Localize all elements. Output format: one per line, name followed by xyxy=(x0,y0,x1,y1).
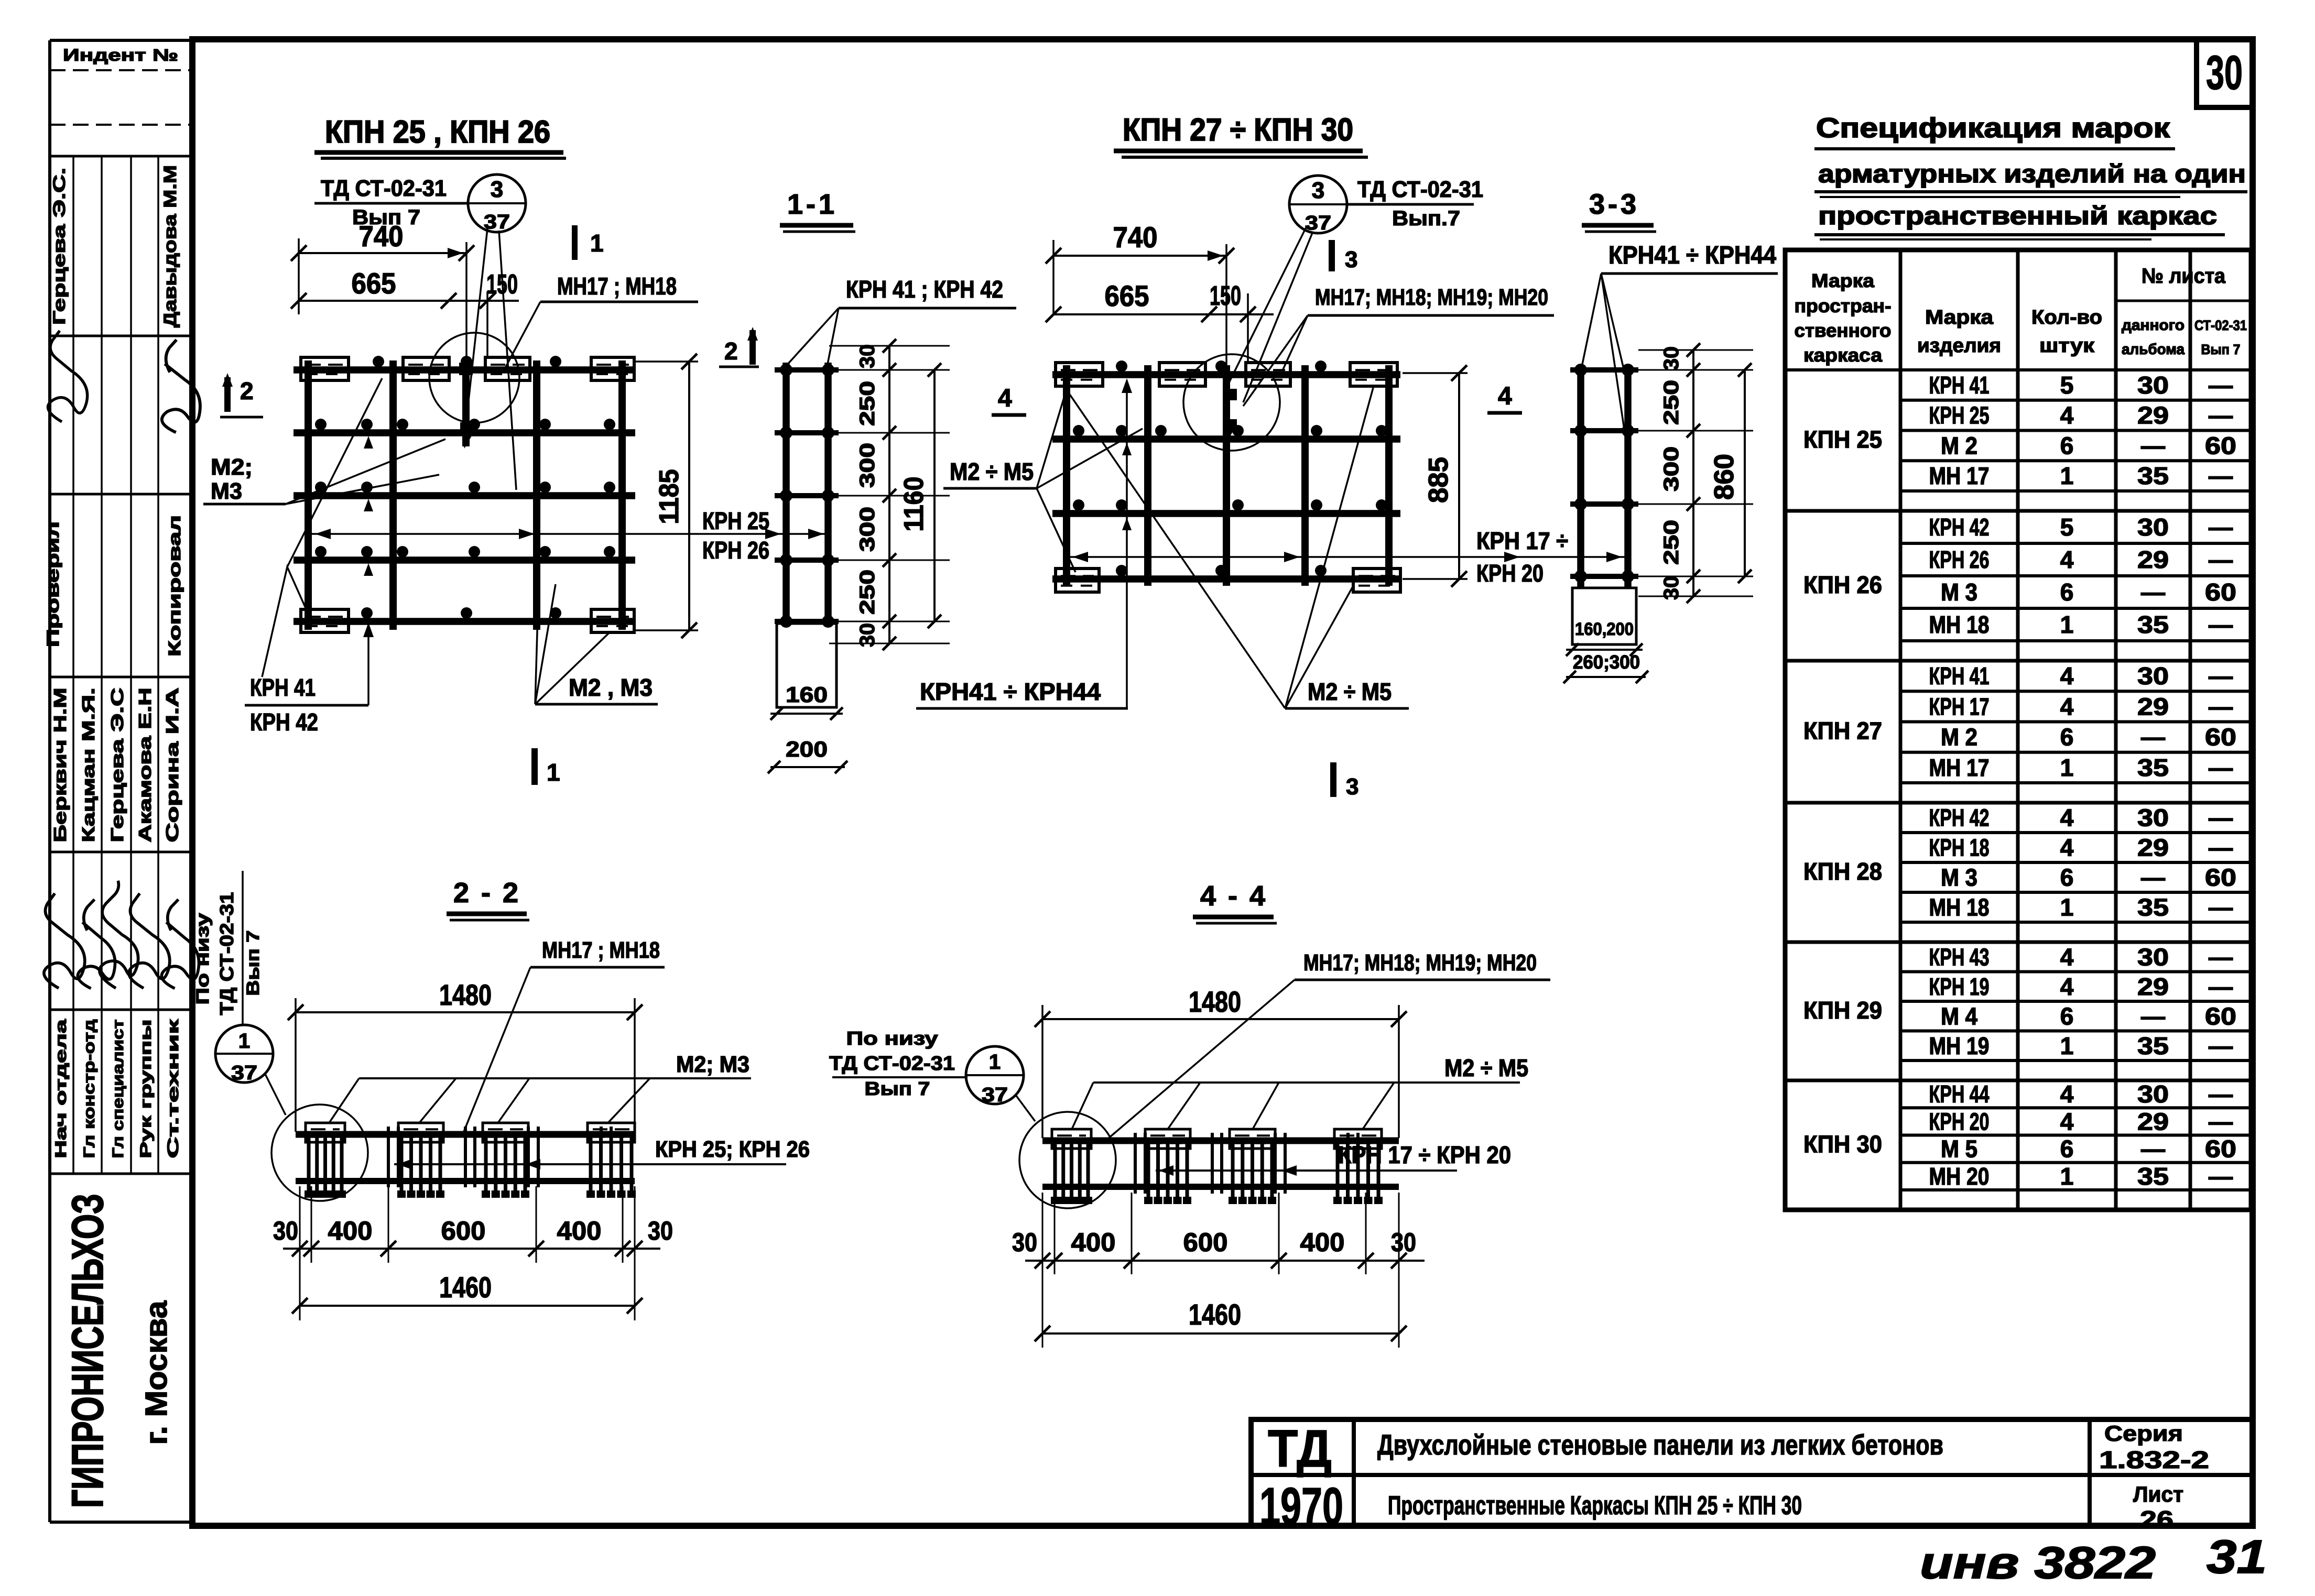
svg-text:М 3: М 3 xyxy=(1941,578,1977,606)
svg-text:инв 3822: инв 3822 xyxy=(1920,1538,2156,1588)
svg-text:5: 5 xyxy=(2060,513,2074,541)
svg-text:30: 30 xyxy=(1391,1228,1416,1257)
svg-text:Ст.техник: Ст.техник xyxy=(165,1019,182,1158)
svg-text:60: 60 xyxy=(2205,578,2236,606)
svg-text:КРН 42: КРН 42 xyxy=(1929,513,1990,541)
svg-text:Сорина И.А: Сорина И.А xyxy=(162,688,182,843)
svg-text:штук: штук xyxy=(2039,335,2095,357)
svg-text:—: — xyxy=(2209,371,2233,399)
svg-text:30: 30 xyxy=(2137,1080,2169,1108)
svg-text:простран-: простран- xyxy=(1795,295,1892,316)
svg-text:—: — xyxy=(2209,402,2233,429)
svg-text:Вып 7: Вып 7 xyxy=(2201,342,2241,357)
svg-text:МН 20: МН 20 xyxy=(1929,1163,1990,1190)
svg-text:6: 6 xyxy=(2060,864,2074,891)
svg-text:400: 400 xyxy=(328,1216,373,1245)
svg-text:КРН 41 ; КРН 42: КРН 41 ; КРН 42 xyxy=(846,276,1003,303)
svg-text:6: 6 xyxy=(2060,724,2074,751)
svg-text:Вып.7: Вып.7 xyxy=(1392,207,1460,230)
svg-text:29: 29 xyxy=(2137,973,2169,1000)
svg-text:МН 18: МН 18 xyxy=(1929,894,1990,921)
svg-text:Гл специалист: Гл специалист xyxy=(110,1020,127,1158)
svg-text:26: 26 xyxy=(2140,1506,2173,1533)
svg-text:КПН 25: КПН 25 xyxy=(1803,426,1882,453)
svg-text:29: 29 xyxy=(2137,1108,2169,1135)
svg-text:4: 4 xyxy=(2060,693,2074,720)
svg-text:4: 4 xyxy=(2060,973,2074,1000)
svg-text:30: 30 xyxy=(856,623,879,647)
svg-text:ТД СТ-02-31: ТД СТ-02-31 xyxy=(1357,177,1483,202)
svg-text:4: 4 xyxy=(2060,1080,2074,1108)
svg-text:КРН 25: КРН 25 xyxy=(1929,402,1990,429)
svg-text:М2 ÷ М5: М2 ÷ М5 xyxy=(1444,1054,1528,1081)
svg-text:4: 4 xyxy=(2060,546,2074,573)
svg-text:М2 ÷ М5: М2 ÷ М5 xyxy=(950,458,1034,485)
svg-text:КРН 19: КРН 19 xyxy=(1929,973,1990,1000)
svg-text:3: 3 xyxy=(491,177,503,202)
svg-text:60: 60 xyxy=(2205,1002,2236,1030)
svg-text:КПН 30: КПН 30 xyxy=(1803,1131,1882,1158)
svg-text:30: 30 xyxy=(2206,46,2243,100)
svg-text:КРН 25: КРН 25 xyxy=(702,507,769,534)
svg-text:Вып 7: Вып 7 xyxy=(352,206,420,229)
svg-text:МН17; МН18; МН19; МН20: МН17; МН18; МН19; МН20 xyxy=(1315,285,1548,310)
svg-text:Серия: Серия xyxy=(2104,1421,2183,1446)
svg-text:35: 35 xyxy=(2137,754,2169,781)
svg-text:4: 4 xyxy=(2060,804,2074,832)
svg-text:КРН 41: КРН 41 xyxy=(1929,371,1990,399)
svg-text:—: — xyxy=(2209,943,2233,970)
svg-text:Акамова Е.Н: Акамова Е.Н xyxy=(135,688,155,843)
svg-text:30: 30 xyxy=(1660,576,1683,600)
svg-text:1480: 1480 xyxy=(439,978,492,1011)
svg-text:КПН 27 ÷ КПН 30: КПН 27 ÷ КПН 30 xyxy=(1123,112,1353,147)
svg-text:Проверил: Проверил xyxy=(44,521,62,647)
svg-text:КРН 44: КРН 44 xyxy=(1929,1080,1990,1108)
svg-text:КРН 17 ÷: КРН 17 ÷ xyxy=(1476,527,1568,554)
svg-text:—: — xyxy=(2209,894,2233,921)
svg-text:Кацман М.Я.: Кацман М.Я. xyxy=(79,688,98,843)
svg-text:6: 6 xyxy=(2060,578,2074,606)
svg-text:1: 1 xyxy=(547,759,560,786)
svg-text:Пространственные Каркасы КП: Пространственные Каркасы КПН 25 ÷ КПН 30 xyxy=(1388,1491,1802,1520)
svg-text:КПН 29: КПН 29 xyxy=(1803,997,1882,1024)
svg-text:60: 60 xyxy=(2205,1135,2236,1163)
svg-text:КПН 25 , КПН 26: КПН 25 , КПН 26 xyxy=(325,114,550,149)
svg-text:60: 60 xyxy=(2205,432,2236,459)
svg-text:160,200: 160,200 xyxy=(1575,619,1634,639)
svg-text:30: 30 xyxy=(2137,804,2169,832)
svg-text:КРН41 ÷ КРН44: КРН41 ÷ КРН44 xyxy=(1608,242,1776,269)
svg-text:По низу: По низу xyxy=(193,913,213,1004)
svg-text:400: 400 xyxy=(1071,1228,1116,1257)
svg-text:1: 1 xyxy=(2060,1163,2074,1190)
svg-text:200: 200 xyxy=(786,737,828,761)
svg-text:№ листа: № листа xyxy=(2142,265,2226,288)
svg-text:300: 300 xyxy=(856,507,879,552)
svg-text:1: 1 xyxy=(238,1030,250,1053)
svg-text:60: 60 xyxy=(2205,724,2236,751)
svg-text:Герцева Э.С.: Герцева Э.С. xyxy=(50,168,69,325)
svg-text:Лист: Лист xyxy=(2133,1482,2183,1506)
svg-text:Берквич Н.М: Берквич Н.М xyxy=(50,688,70,843)
svg-text:КРН 26: КРН 26 xyxy=(1929,546,1990,573)
svg-text:—: — xyxy=(2209,1032,2233,1059)
svg-text:250: 250 xyxy=(1660,380,1683,425)
svg-text:31: 31 xyxy=(2207,1531,2267,1583)
svg-text:М2 , М3: М2 , М3 xyxy=(569,674,653,701)
svg-text:пространственный каркас: пространственный каркас xyxy=(1818,202,2217,230)
svg-text:М2; М3: М2; М3 xyxy=(676,1052,749,1077)
svg-text:М 4: М 4 xyxy=(1941,1002,1977,1030)
svg-text:740: 740 xyxy=(1113,221,1158,254)
svg-text:35: 35 xyxy=(2137,611,2169,638)
svg-text:150: 150 xyxy=(1210,281,1241,311)
svg-text:2: 2 xyxy=(724,337,738,365)
svg-text:4: 4 xyxy=(2060,402,2074,429)
svg-text:КРН41 ÷ КРН44: КРН41 ÷ КРН44 xyxy=(920,678,1101,705)
svg-text:30: 30 xyxy=(273,1216,298,1245)
svg-text:4: 4 xyxy=(2060,943,2074,970)
svg-text:3: 3 xyxy=(1345,247,1357,272)
svg-text:160: 160 xyxy=(786,682,828,707)
svg-text:250: 250 xyxy=(1660,520,1683,565)
svg-text:600: 600 xyxy=(1183,1228,1228,1257)
svg-text:1.832-2: 1.832-2 xyxy=(2099,1446,2209,1473)
svg-text:СТ-02-31: СТ-02-31 xyxy=(2194,318,2247,333)
svg-text:данного: данного xyxy=(2122,317,2184,334)
svg-text:—: — xyxy=(2209,1163,2233,1190)
svg-text:30: 30 xyxy=(856,344,879,368)
svg-text:3: 3 xyxy=(1312,178,1324,203)
svg-text:29: 29 xyxy=(2137,693,2169,720)
svg-text:400: 400 xyxy=(1300,1228,1345,1257)
svg-text:—: — xyxy=(2209,611,2233,638)
svg-text:Двухслойные стеновые панели из: Двухслойные стеновые панели из легких бе… xyxy=(1377,1429,1943,1461)
svg-text:—: — xyxy=(2209,973,2233,1000)
svg-text:29: 29 xyxy=(2137,834,2169,861)
svg-text:1: 1 xyxy=(2060,462,2074,489)
svg-text:1480: 1480 xyxy=(1189,985,1241,1018)
svg-text:КРН 42: КРН 42 xyxy=(250,708,318,736)
svg-text:КРН 20: КРН 20 xyxy=(1476,560,1544,587)
svg-text:ТД СТ-02-31: ТД СТ-02-31 xyxy=(216,892,237,1015)
svg-text:—: — xyxy=(2209,513,2233,541)
svg-text:Вып 7: Вып 7 xyxy=(865,1078,930,1099)
svg-text:КРН 17: КРН 17 xyxy=(1929,693,1990,720)
svg-text:250: 250 xyxy=(856,381,879,426)
svg-text:—: — xyxy=(2209,693,2233,720)
svg-text:1970: 1970 xyxy=(1259,1477,1343,1536)
svg-text:М 2: М 2 xyxy=(1941,724,1977,751)
svg-text:29: 29 xyxy=(2137,546,2169,573)
svg-text:—: — xyxy=(2141,578,2165,606)
svg-text:6: 6 xyxy=(2060,432,2074,459)
svg-text:3: 3 xyxy=(1346,774,1358,800)
svg-text:М 5: М 5 xyxy=(1941,1135,1977,1163)
svg-text:Рук группы: Рук группы xyxy=(137,1020,155,1158)
svg-text:М 2: М 2 xyxy=(1941,432,1977,459)
svg-text:4: 4 xyxy=(998,385,1012,412)
svg-text:арматурных изделий на один: арматурных изделий на один xyxy=(1818,160,2246,188)
svg-text:Герцева Э.С: Герцева Э.С xyxy=(107,688,127,843)
svg-text:КПН 28: КПН 28 xyxy=(1803,858,1882,885)
svg-text:По низу: По низу xyxy=(846,1027,938,1049)
svg-text:—: — xyxy=(2209,804,2233,832)
svg-text:Вып 7: Вып 7 xyxy=(243,931,263,996)
svg-text:—: — xyxy=(2209,462,2233,489)
svg-text:6: 6 xyxy=(2060,1135,2074,1163)
svg-text:60: 60 xyxy=(2205,864,2236,891)
svg-text:—: — xyxy=(2141,1135,2165,1163)
svg-text:1: 1 xyxy=(2060,611,2074,638)
svg-text:—: — xyxy=(2209,546,2233,573)
svg-text:альбома: альбома xyxy=(2122,341,2185,358)
svg-text:1160: 1160 xyxy=(899,477,929,532)
svg-text:30: 30 xyxy=(1660,346,1683,370)
svg-text:МН 19: МН 19 xyxy=(1929,1032,1990,1059)
svg-text:30: 30 xyxy=(2137,662,2169,690)
svg-text:4: 4 xyxy=(2060,834,2074,861)
svg-text:30: 30 xyxy=(2137,943,2169,970)
svg-text:КРН 25; КРН 26: КРН 25; КРН 26 xyxy=(655,1136,810,1162)
svg-text:МН 18: МН 18 xyxy=(1929,611,1990,638)
svg-text:г. Москва: г. Москва xyxy=(139,1300,173,1445)
svg-text:М3: М3 xyxy=(211,478,242,504)
svg-text:665: 665 xyxy=(1105,279,1149,312)
svg-text:600: 600 xyxy=(441,1216,486,1245)
svg-text:37: 37 xyxy=(1305,212,1331,234)
svg-text:Спецификация марок: Спецификация марок xyxy=(1816,113,2170,144)
svg-text:М2 ÷ М5: М2 ÷ М5 xyxy=(1308,678,1392,705)
svg-text:1460: 1460 xyxy=(1189,1298,1241,1331)
svg-text:Нач отдела: Нач отдела xyxy=(52,1019,70,1158)
svg-text:1: 1 xyxy=(2060,754,2074,781)
svg-text:1: 1 xyxy=(590,229,604,257)
svg-text:37: 37 xyxy=(982,1084,1008,1106)
svg-text:М 3: М 3 xyxy=(1941,864,1977,891)
svg-text:Кол-во: Кол-во xyxy=(2031,307,2102,329)
svg-text:КРН 41: КРН 41 xyxy=(250,674,316,701)
svg-text:—: — xyxy=(2141,1002,2165,1030)
svg-text:Копировал: Копировал xyxy=(165,515,184,657)
svg-text:30: 30 xyxy=(648,1216,673,1245)
svg-text:300: 300 xyxy=(856,443,879,488)
svg-text:КРН 42: КРН 42 xyxy=(1929,804,1990,832)
svg-text:35: 35 xyxy=(2137,1032,2169,1059)
svg-text:КРН 43: КРН 43 xyxy=(1929,943,1990,970)
svg-text:3-3: 3-3 xyxy=(1589,189,1639,220)
svg-text:—: — xyxy=(2209,1108,2233,1135)
svg-text:4: 4 xyxy=(1498,382,1512,410)
svg-text:1: 1 xyxy=(2060,1032,2074,1059)
svg-text:35: 35 xyxy=(2137,894,2169,921)
svg-text:ТД СТ-02-31: ТД СТ-02-31 xyxy=(829,1053,955,1075)
svg-text:ГИПРОНИСЕЛЬХОЗ: ГИПРОНИСЕЛЬХОЗ xyxy=(63,1194,112,1508)
svg-text:МН17 ; МН18: МН17 ; МН18 xyxy=(557,272,677,300)
svg-text:Давыдова М.М: Давыдова М.М xyxy=(160,165,180,327)
svg-text:КРН 17 ÷ КРН 20: КРН 17 ÷ КРН 20 xyxy=(1338,1141,1511,1168)
svg-text:Марка: Марка xyxy=(1811,270,1875,291)
svg-text:КПН 26: КПН 26 xyxy=(1803,571,1882,598)
svg-text:КРН 18: КРН 18 xyxy=(1929,834,1990,861)
svg-text:—: — xyxy=(2209,662,2233,690)
svg-text:4 - 4: 4 - 4 xyxy=(1200,880,1267,912)
svg-text:МН17; МН18; МН19; МН20: МН17; МН18; МН19; МН20 xyxy=(1303,950,1537,976)
svg-text:4: 4 xyxy=(2060,1108,2074,1135)
svg-text:2 - 2: 2 - 2 xyxy=(453,877,520,909)
svg-text:30: 30 xyxy=(2137,371,2169,399)
svg-text:КПН 27: КПН 27 xyxy=(1803,717,1882,745)
svg-text:Марка: Марка xyxy=(1925,307,1994,329)
svg-text:1: 1 xyxy=(2060,894,2074,921)
svg-text:МН 17: МН 17 xyxy=(1929,754,1990,781)
svg-text:885: 885 xyxy=(1423,457,1454,503)
svg-text:ТД: ТД xyxy=(1268,1419,1332,1478)
svg-text:КРН 26: КРН 26 xyxy=(702,537,769,564)
svg-text:—: — xyxy=(2209,834,2233,861)
svg-text:МН 17: МН 17 xyxy=(1929,462,1990,489)
svg-text:—: — xyxy=(2141,864,2165,891)
svg-text:—: — xyxy=(2209,754,2233,781)
svg-text:250: 250 xyxy=(856,570,879,615)
svg-text:5: 5 xyxy=(2060,371,2074,399)
svg-text:30: 30 xyxy=(2137,513,2169,541)
svg-text:35: 35 xyxy=(2137,1163,2169,1190)
svg-text:30: 30 xyxy=(1012,1228,1037,1257)
svg-text:1: 1 xyxy=(989,1051,1001,1074)
svg-text:—: — xyxy=(2141,432,2165,459)
svg-text:М2;: М2; xyxy=(211,454,253,480)
svg-text:КРН 20: КРН 20 xyxy=(1929,1108,1990,1135)
svg-text:37: 37 xyxy=(231,1062,257,1084)
svg-text:ственного: ственного xyxy=(1795,320,1892,341)
svg-text:860: 860 xyxy=(1709,454,1740,500)
svg-text:260;300: 260;300 xyxy=(1573,651,1640,673)
svg-text:Индент №: Индент № xyxy=(63,46,178,64)
svg-text:400: 400 xyxy=(557,1216,602,1245)
svg-text:—: — xyxy=(2209,1080,2233,1108)
svg-text:1185: 1185 xyxy=(654,469,684,524)
svg-text:2: 2 xyxy=(240,377,254,405)
svg-text:—: — xyxy=(2141,724,2165,751)
svg-text:35: 35 xyxy=(2137,462,2169,489)
svg-text:1-1: 1-1 xyxy=(787,189,838,220)
svg-text:4: 4 xyxy=(2060,662,2074,690)
svg-text:6: 6 xyxy=(2060,1002,2074,1030)
svg-text:1460: 1460 xyxy=(439,1271,492,1304)
svg-text:изделия: изделия xyxy=(1917,335,2001,357)
svg-text:каркаса: каркаса xyxy=(1803,344,1883,366)
svg-text:Гл констр-отд: Гл констр-отд xyxy=(81,1020,98,1158)
svg-text:КРН 41: КРН 41 xyxy=(1929,662,1990,690)
svg-text:ТД СТ-02-31: ТД СТ-02-31 xyxy=(321,176,447,201)
svg-text:29: 29 xyxy=(2137,402,2169,429)
svg-text:300: 300 xyxy=(1660,446,1683,491)
svg-text:665: 665 xyxy=(352,267,396,300)
svg-text:МН17 ; МН18: МН17 ; МН18 xyxy=(542,937,660,963)
